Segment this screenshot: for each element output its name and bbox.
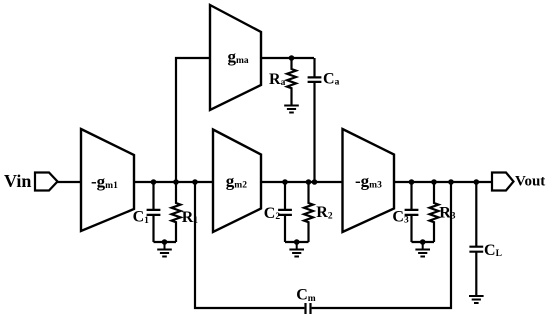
svg-text:Vout: Vout [515,174,545,190]
svg-text:Vin: Vin [4,171,31,191]
